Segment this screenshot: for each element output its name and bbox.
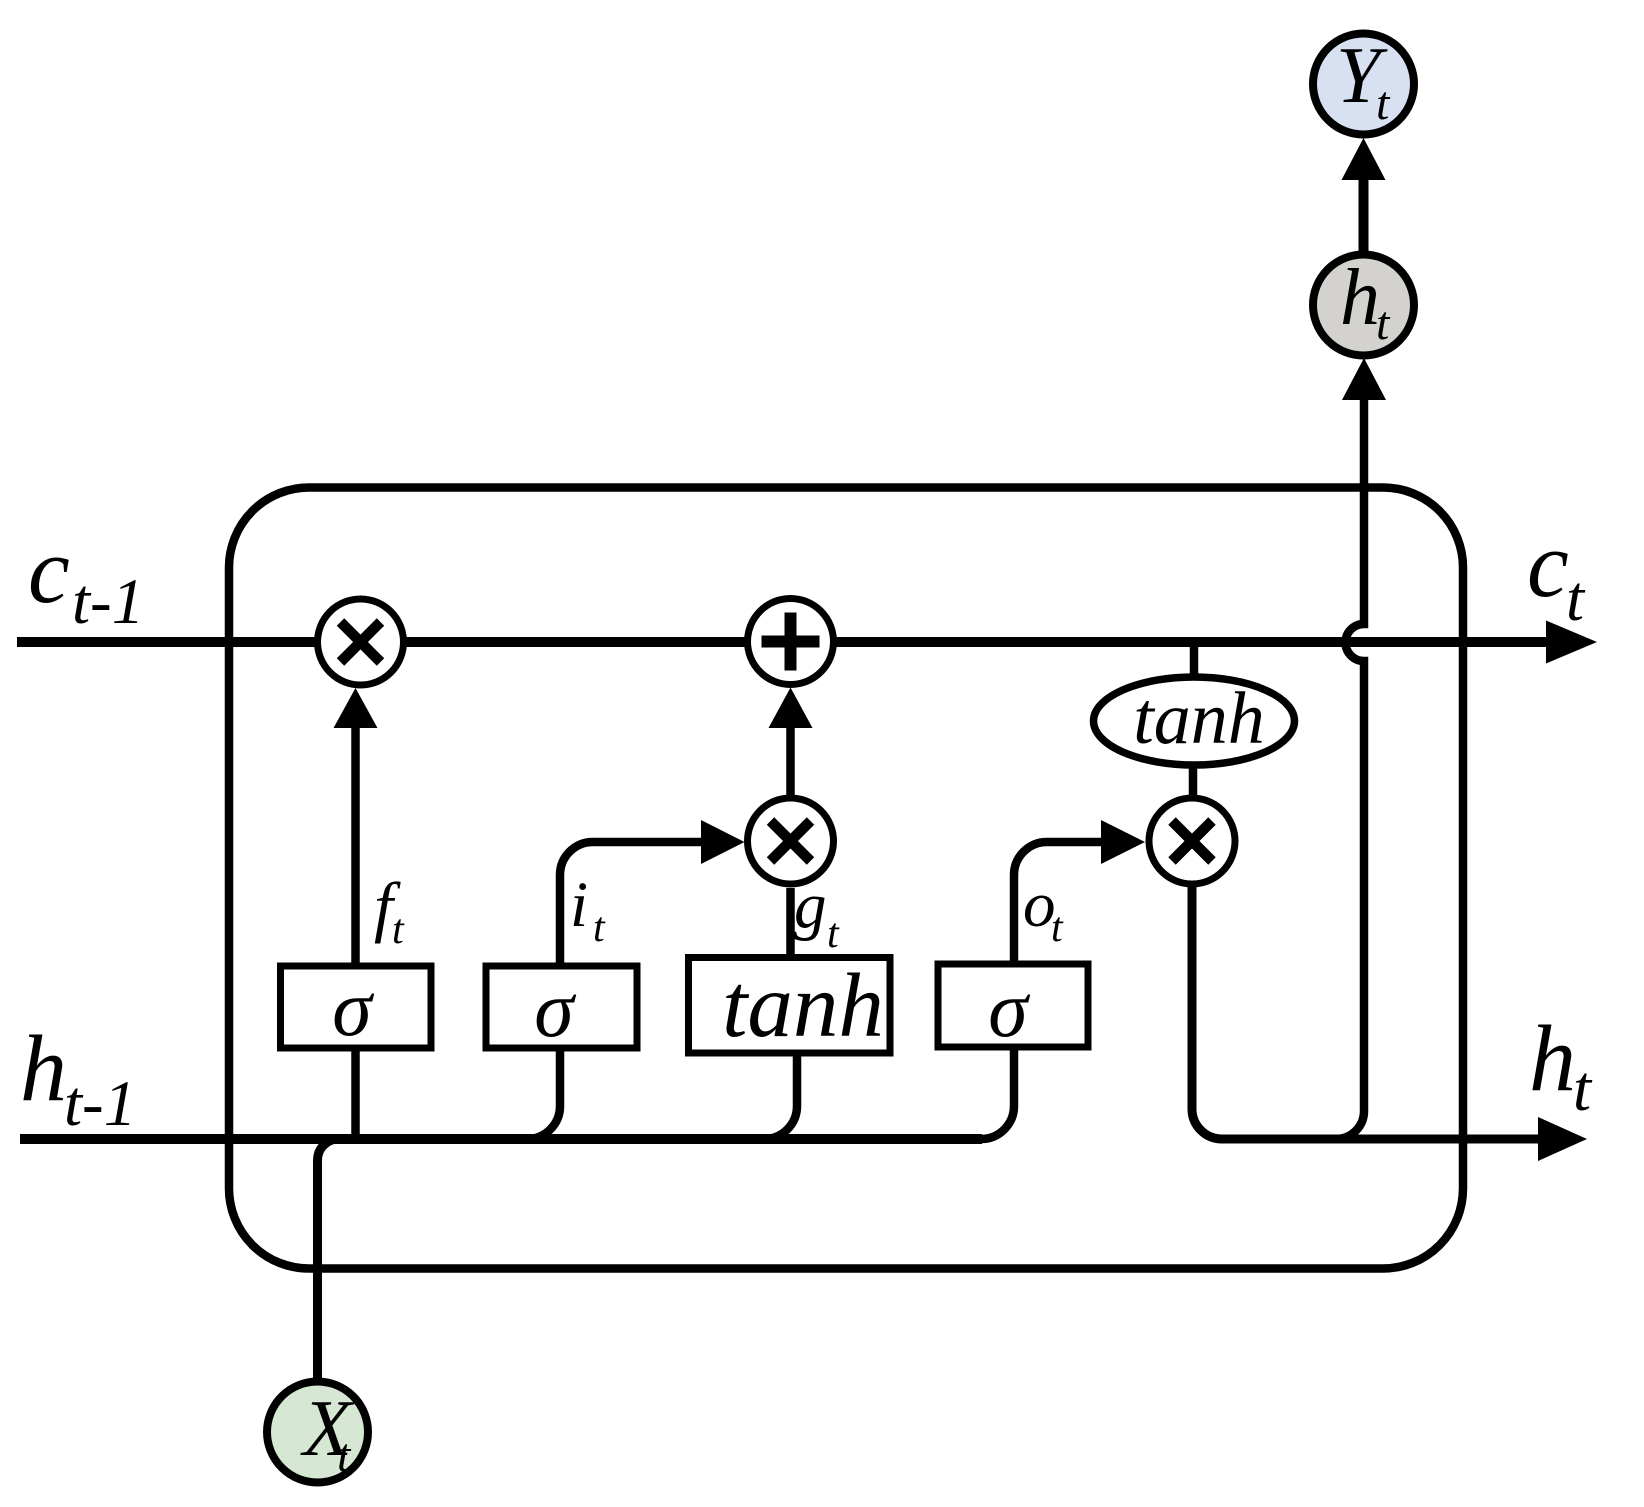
wire c-line (cell state, horizontal): [17, 637, 1549, 647]
arrowhead h_t output right: [1538, 1117, 1587, 1161]
gate box sigma (forget): [281, 965, 432, 1053]
gate box sigma (input): [486, 966, 637, 1054]
svg-text:i: i: [570, 869, 588, 941]
arrowhead c_t output: [1546, 621, 1597, 664]
gate box tanh (candidate): [689, 955, 891, 1056]
svg-text:h: h: [1340, 254, 1380, 342]
gate box sigma (output): [938, 964, 1088, 1054]
node multiply (input x candidate): [748, 798, 834, 884]
svg-text:t: t: [1566, 563, 1586, 635]
svg-text:t: t: [337, 1429, 352, 1482]
svg-text:t: t: [1376, 77, 1391, 130]
wire o gate output arrow to right multiply node: [1014, 842, 1102, 964]
svg-text:t: t: [593, 905, 606, 951]
tanh ellipse (cell state activation): [1094, 677, 1295, 765]
svg-text:σ: σ: [988, 966, 1030, 1054]
svg-text:h: h: [20, 1017, 67, 1121]
svg-text:t: t: [392, 907, 405, 953]
LSTM cell body rounded rectangle: [229, 488, 1463, 1269]
svg-text:tanh: tanh: [1133, 678, 1265, 760]
node h_t hidden state circle: [1313, 254, 1414, 356]
wire middle multiply output arrow up into add node: [786, 727, 795, 795]
svg-text:c: c: [28, 519, 70, 623]
node multiply (output gate): [1149, 798, 1235, 884]
svg-text:t: t: [1051, 905, 1064, 951]
node multiply (forget gate) on c-line: [318, 599, 404, 685]
wire i gate output arrow to middle multiply node: [560, 842, 702, 966]
wire stub tanh ellipse down to right multiply node: [1189, 766, 1198, 798]
wire branch up to h_t circle with hop over c-line: [1336, 400, 1364, 1140]
node Y_t output circle: [1313, 32, 1414, 135]
svg-text:t-1: t-1: [64, 1068, 136, 1140]
svg-text:tanh: tanh: [722, 955, 884, 1056]
wire g gate input branch: [764, 1053, 797, 1139]
svg-text:t-1: t-1: [72, 566, 144, 638]
node X_t input circle: [267, 1382, 368, 1483]
wire g output stub from tanh box to middle multiply node: [786, 888, 795, 958]
wire o gate input branch: [981, 1047, 1014, 1139]
wire right multiply output down then right (h output): [1192, 884, 1539, 1139]
svg-text:t: t: [827, 911, 840, 957]
svg-text:c: c: [1527, 513, 1569, 617]
node add on c-line: [748, 599, 834, 685]
svg-text:h: h: [1529, 1007, 1576, 1111]
wire i gate input branch: [527, 1048, 560, 1139]
svg-text:σ: σ: [332, 965, 374, 1053]
svg-text:t: t: [1573, 1053, 1593, 1125]
svg-text:σ: σ: [534, 966, 576, 1054]
wire h-line (hidden state input, horizontal): [20, 1134, 982, 1144]
wire f gate input stub: [351, 1048, 360, 1139]
wire stub c-line down to tanh ellipse: [1190, 642, 1199, 676]
wire arrow h_t circle to Y_t circle: [1359, 179, 1369, 252]
arrowhead into h_t circle: [1342, 358, 1386, 400]
wire X_t input stem merging into h-line: [318, 1139, 339, 1382]
wire f gate output arrow to multiply node: [351, 727, 360, 966]
svg-text:t: t: [1376, 297, 1391, 350]
